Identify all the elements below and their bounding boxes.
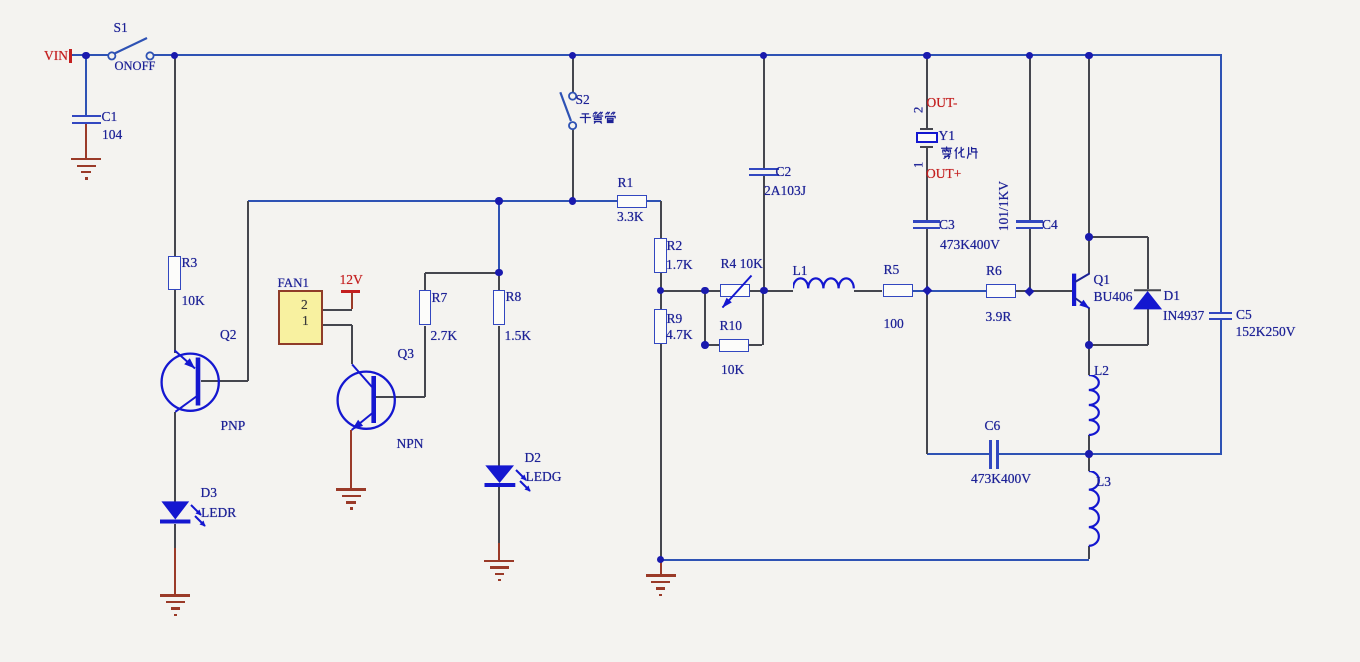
resistor R10 xyxy=(719,339,749,353)
diode D2 xyxy=(480,460,575,505)
resistor R2 xyxy=(654,238,667,273)
wire xyxy=(174,412,176,502)
ground xyxy=(484,560,514,562)
wire xyxy=(749,344,762,346)
potentiometer R4 xyxy=(720,284,750,298)
wire xyxy=(424,273,426,291)
capacitor C2 xyxy=(749,168,779,171)
wire xyxy=(661,290,720,292)
transistor Q1 xyxy=(1060,262,1102,314)
wire xyxy=(85,55,87,116)
wire xyxy=(498,273,500,291)
switch S2 xyxy=(552,88,597,134)
wire xyxy=(1088,55,1090,274)
wire xyxy=(174,524,176,548)
wire xyxy=(498,201,500,273)
junction xyxy=(495,269,503,277)
capacitor C6 xyxy=(989,440,992,469)
wire xyxy=(661,559,1090,561)
wire xyxy=(660,201,662,238)
junction xyxy=(657,287,665,295)
wire xyxy=(927,453,989,455)
junction xyxy=(701,287,709,295)
wire xyxy=(72,54,109,56)
wire xyxy=(647,200,661,202)
wire xyxy=(498,326,500,465)
wire xyxy=(376,396,426,398)
junction xyxy=(760,287,768,295)
wire xyxy=(1088,345,1090,375)
wire xyxy=(154,54,1222,56)
wire xyxy=(1220,55,1222,311)
wire xyxy=(351,325,353,364)
wire xyxy=(762,291,764,345)
junction xyxy=(1026,52,1034,60)
junction xyxy=(1085,52,1093,60)
wire xyxy=(660,560,662,576)
junction xyxy=(569,52,577,60)
wire xyxy=(926,55,928,128)
wire xyxy=(323,309,352,311)
ground xyxy=(646,574,676,576)
wire xyxy=(1088,454,1090,471)
wire xyxy=(1015,290,1073,292)
wire xyxy=(424,326,426,396)
wire xyxy=(1220,320,1222,454)
inductor L1 xyxy=(793,273,857,293)
junction xyxy=(760,52,768,60)
wire xyxy=(1088,435,1090,454)
wire xyxy=(763,55,765,167)
resistor R6 xyxy=(986,284,1016,298)
wire xyxy=(1029,229,1031,291)
transducer Y1 xyxy=(920,128,933,130)
inductor L3 xyxy=(1082,471,1104,548)
wire xyxy=(174,290,176,352)
port OUT- xyxy=(927,96,958,110)
wire xyxy=(704,291,706,345)
ground xyxy=(160,594,190,596)
wire xyxy=(174,55,176,255)
wire xyxy=(1089,236,1148,238)
wire xyxy=(425,272,499,274)
transistor Q3 xyxy=(330,364,430,436)
capacitor C1 xyxy=(72,115,101,118)
wire xyxy=(247,201,249,382)
junction xyxy=(171,52,179,60)
diode D3 xyxy=(155,496,250,541)
inductor L2 xyxy=(1082,375,1104,436)
junction xyxy=(657,556,665,564)
ground xyxy=(336,488,366,490)
wire xyxy=(660,344,662,559)
junction xyxy=(1085,341,1093,349)
wire xyxy=(1029,55,1031,220)
resistor R1 xyxy=(617,195,647,209)
wire xyxy=(1089,453,1222,455)
resistor R3 xyxy=(168,256,181,291)
wire xyxy=(572,55,574,92)
wire xyxy=(174,548,176,596)
junction xyxy=(923,52,931,60)
junction xyxy=(569,197,577,205)
wire xyxy=(1088,308,1090,346)
junction xyxy=(922,286,932,296)
wire xyxy=(763,176,765,291)
wire xyxy=(1089,344,1148,346)
resistor R5 xyxy=(883,284,913,298)
resistor R7 xyxy=(419,290,432,325)
wire xyxy=(498,543,500,561)
junction xyxy=(701,341,709,349)
wire xyxy=(926,229,928,454)
switch S1 xyxy=(100,30,164,66)
ground xyxy=(71,158,101,160)
port VIN xyxy=(44,49,68,63)
wire xyxy=(1147,309,1149,345)
resistor R8 xyxy=(493,290,506,325)
junction xyxy=(495,197,503,205)
junction xyxy=(82,52,90,60)
wire xyxy=(705,344,719,346)
junction xyxy=(1085,233,1093,241)
wire xyxy=(1088,546,1090,559)
wire xyxy=(201,380,248,382)
wire xyxy=(1147,237,1149,289)
wire xyxy=(999,453,1089,455)
capacitor C3 xyxy=(913,220,940,223)
wire xyxy=(323,324,352,326)
wire xyxy=(350,430,352,489)
capacitor C5 xyxy=(1209,312,1232,315)
wire xyxy=(854,290,883,292)
port OUT+ xyxy=(926,167,961,181)
power 12V xyxy=(340,273,363,287)
junction xyxy=(1085,450,1093,458)
connector FAN1 xyxy=(278,290,323,345)
resistor R9 xyxy=(654,309,667,344)
wire xyxy=(351,292,353,309)
wire xyxy=(913,290,986,292)
diode D1 xyxy=(1128,285,1172,313)
wire xyxy=(248,200,617,202)
transistor Q2 xyxy=(155,347,250,419)
wire xyxy=(660,273,662,310)
wire xyxy=(498,487,500,543)
wire xyxy=(85,124,87,159)
wire xyxy=(749,290,793,292)
wire xyxy=(572,129,574,201)
capacitor C4 xyxy=(1016,220,1043,223)
wire xyxy=(926,147,928,220)
junction xyxy=(1025,286,1035,296)
